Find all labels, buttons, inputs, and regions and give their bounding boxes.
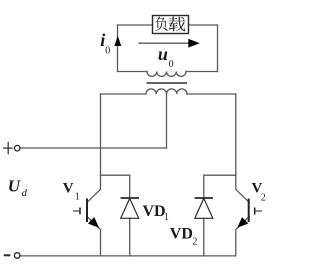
- wire u0 reference line: [139, 42, 190, 44]
- svg-text:VD: VD: [143, 203, 166, 220]
- transformer secondary winding: [147, 72, 186, 77]
- wire load loop bottom right: [186, 71, 218, 73]
- arrow u0: [188, 39, 200, 48]
- wire left branch vertical: [100, 94, 102, 175]
- svg-text:2: 2: [192, 236, 197, 247]
- load label fu (Chinese): [155, 17, 167, 31]
- svg-text:V: V: [63, 181, 74, 197]
- arrow i0: [114, 36, 121, 46]
- diode VD2: [195, 198, 214, 218]
- svg-text:2: 2: [261, 192, 266, 203]
- diode VD1: [121, 198, 140, 218]
- transformer core: [147, 82, 188, 84]
- wire primary left lead: [101, 93, 147, 95]
- wire load loop left vertical: [117, 25, 119, 72]
- wire load loop right vertical: [217, 25, 219, 72]
- transistor V1: [73, 199, 99, 228]
- wire Ud positive input: [20, 147, 167, 149]
- wire VD1 cathode lead: [129, 175, 131, 198]
- wire V1 collector: [87, 175, 101, 202]
- svg-text:0: 0: [169, 59, 174, 70]
- wire negative rail: [20, 255, 236, 257]
- terminal circle negative: [14, 253, 20, 259]
- wire V2 emitter: [236, 217, 250, 256]
- transformer primary winding: [146, 89, 187, 94]
- svg-text:1: 1: [75, 191, 80, 202]
- svg-text:0: 0: [105, 46, 110, 57]
- wire V1 emitter: [87, 217, 101, 256]
- svg-text:d: d: [22, 188, 28, 199]
- terminal circle positive: [14, 145, 20, 151]
- wire VD2 anode lead: [203, 218, 205, 256]
- wire load loop top right: [189, 24, 218, 26]
- wire load loop bottom left: [118, 71, 148, 73]
- wire V2 collector: [236, 175, 250, 202]
- wire center tap: [166, 94, 168, 148]
- wire right branch vertical: [235, 94, 237, 175]
- wire primary right lead: [187, 93, 236, 95]
- wire VD1 anode lead: [129, 218, 131, 256]
- terminal plus: [3, 142, 13, 155]
- svg-text:u: u: [158, 44, 168, 64]
- wire VD2 cathode lead: [203, 175, 205, 198]
- wire load loop top left: [118, 24, 153, 26]
- load label zai (Chinese): [168, 17, 185, 32]
- svg-text:1: 1: [164, 212, 169, 223]
- svg-text:VD: VD: [170, 225, 193, 242]
- load box: [153, 16, 189, 34]
- transistor V2: [237, 199, 262, 228]
- terminal minus: [4, 254, 11, 256]
- wire node B to VD2: [204, 174, 236, 176]
- svg-text:U: U: [8, 177, 21, 196]
- wire node A to VD1: [101, 174, 130, 176]
